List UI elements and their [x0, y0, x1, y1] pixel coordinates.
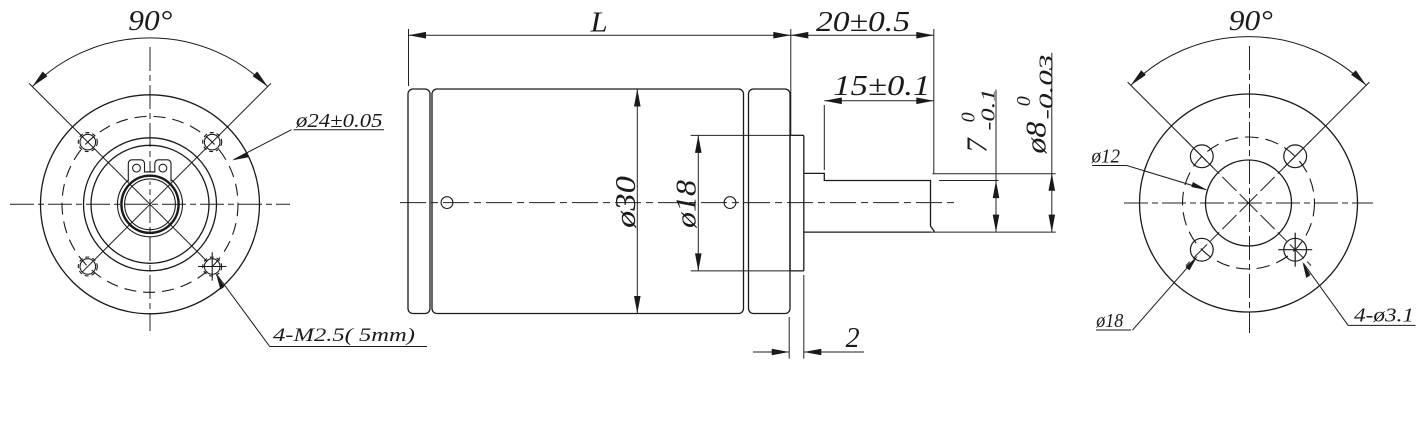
svg-text:4-M2.5( 5mm): 4-M2.5( 5mm)	[273, 326, 415, 346]
svg-text:4-ø3.1: 4-ø3.1	[1354, 305, 1414, 327]
svg-text:20±0.5: 20±0.5	[816, 6, 910, 38]
svg-text:7: 7	[962, 137, 994, 153]
svg-text:90°: 90°	[1229, 5, 1273, 37]
svg-text:-0.03: -0.03	[1036, 55, 1058, 120]
svg-text:0: 0	[957, 112, 979, 122]
svg-text:ø12: ø12	[1091, 146, 1120, 168]
svg-text:ø8: ø8	[1021, 121, 1053, 155]
svg-text:0: 0	[1013, 96, 1035, 106]
svg-text:2: 2	[846, 323, 860, 354]
svg-text:15±0.1: 15±0.1	[833, 70, 930, 102]
svg-text:ø30: ø30	[610, 175, 642, 229]
svg-text:ø18: ø18	[671, 179, 703, 229]
svg-text:-0.1: -0.1	[977, 89, 999, 131]
svg-text:90°: 90°	[128, 5, 172, 37]
svg-text:ø24±0.05: ø24±0.05	[295, 110, 383, 132]
svg-text:L: L	[590, 6, 608, 38]
svg-text:ø18: ø18	[1095, 310, 1123, 332]
